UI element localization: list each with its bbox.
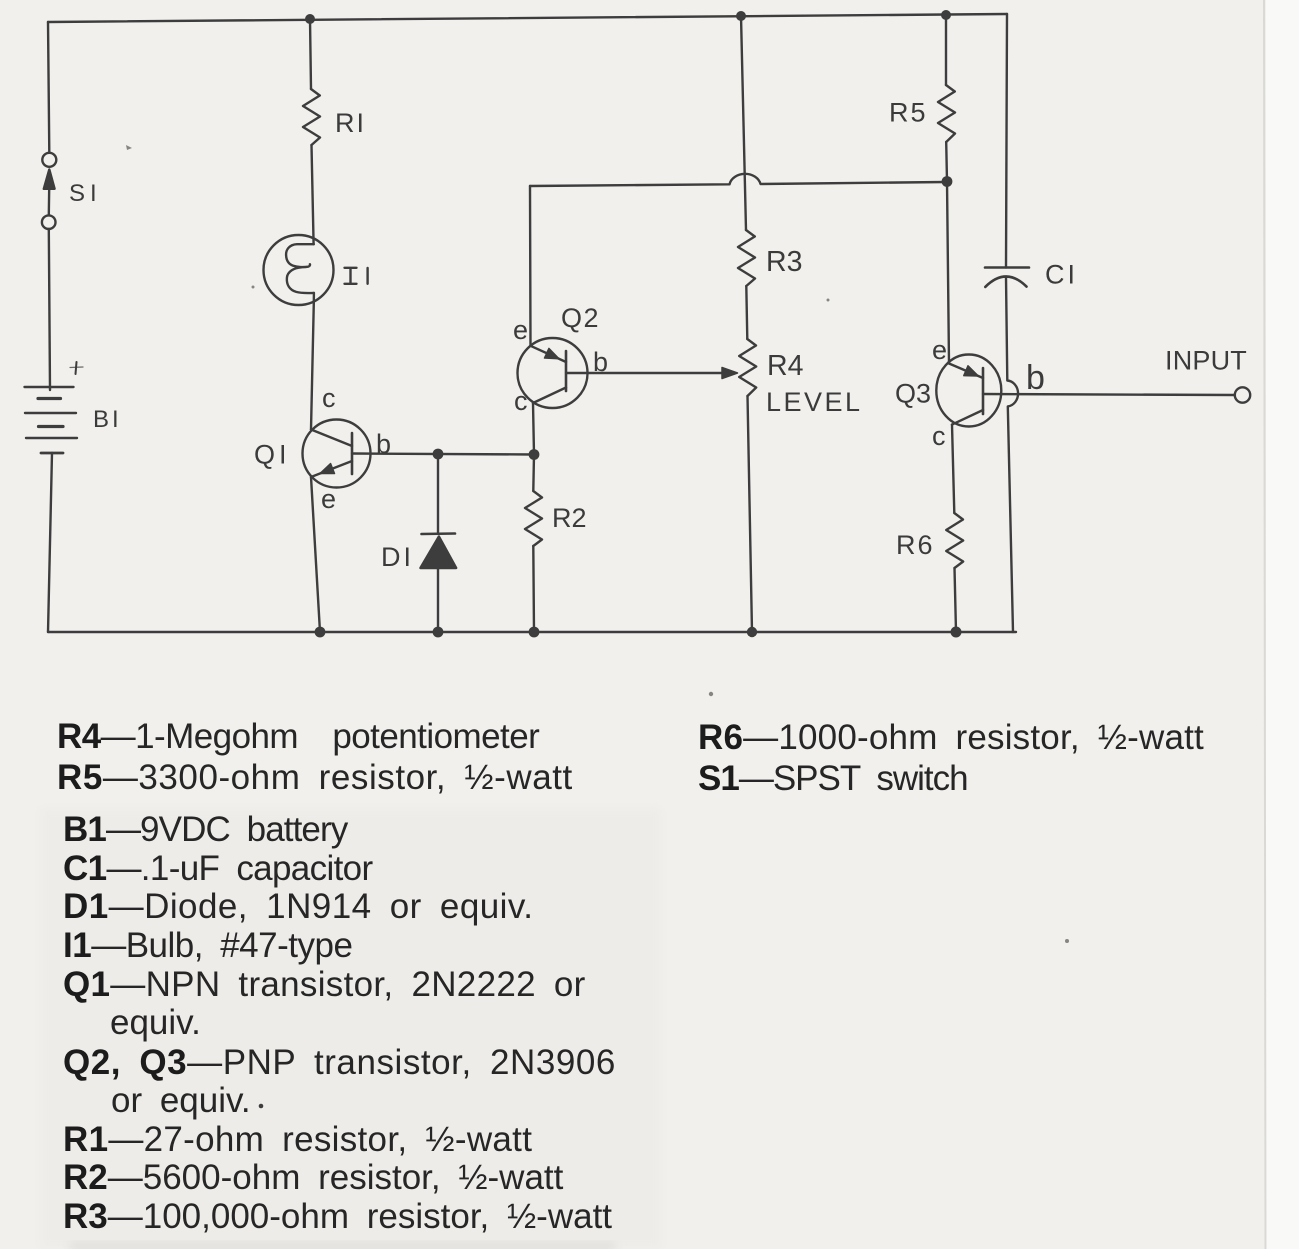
svg-text:SI: SI [69,180,102,207]
svg-text:e: e [513,315,528,345]
svg-text:b: b [376,429,391,459]
svg-text:b: b [593,347,608,377]
svg-text:R5: R5 [889,98,928,128]
svg-text:DI: DI [381,542,414,572]
svg-text:R3: R3 [766,246,802,278]
svg-text:e: e [932,335,947,365]
svg-text:Q2: Q2 [561,303,600,333]
svg-text:QI: QI [254,440,291,470]
svg-text:R2: R2 [552,503,587,533]
svg-text:RI: RI [335,108,366,138]
svg-text:LEVEL: LEVEL [766,387,863,417]
svg-text:c: c [514,386,528,416]
svg-text:c: c [322,383,336,413]
svg-text:Q3: Q3 [895,379,931,409]
svg-text:R6: R6 [896,530,935,560]
svg-text:b: b [1026,359,1045,397]
svg-text:CI: CI [1045,260,1078,290]
svg-text:c: c [932,421,946,451]
svg-text:INPUT: INPUT [1165,346,1247,376]
svg-text:BI: BI [93,406,122,433]
svg-text:e: e [321,484,336,514]
svg-text:R4: R4 [767,350,804,382]
